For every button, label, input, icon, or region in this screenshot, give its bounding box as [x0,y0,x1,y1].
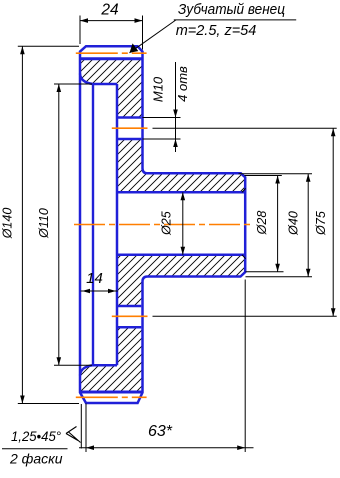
dim D140 line [21,46,23,403]
dim 63 line [79,447,254,449]
rim inner surface lower [93,364,117,367]
dim D40 extension lines [239,173,313,175]
svg-text:1,25•45°: 1,25•45° [11,429,62,444]
M10 callout line [175,62,177,152]
svg-text:Зубчатый венец: Зубчатый венец [178,1,285,18]
chamfer note leader [80,404,82,449]
dim D25 line [182,192,184,255]
dim 63 extension lines [85,404,87,453]
svg-text:Ø28: Ø28 [255,211,269,236]
svg-text:Ø75: Ø75 [314,211,328,236]
lower hole M10 bottom edge [117,326,141,329]
leader gear rim note [130,20,177,53]
rim inner fillet upper [80,74,93,85]
upper hole axis [112,127,148,129]
root line lower [80,391,143,394]
dim D40 line [307,174,309,277]
root line upper [80,57,143,60]
dim 24 extension lines [79,16,81,45]
hatched section: hub lower wall and web above lower hole [117,255,245,306]
rim inner surface upper [93,83,117,86]
svg-text:m=2.5, z=54: m=2.5, z=54 [176,23,257,39]
bore right chamfer upper [242,188,246,192]
dim D75 line [332,128,334,316]
dim D28 extension lines [245,175,282,177]
lower hole axis [112,315,148,317]
upper hole M10 bottom edge [117,138,141,141]
hatched section: upper rim and web [80,59,143,118]
part outline silhouette [80,46,245,403]
rim inner fillet lower [80,365,93,375]
main axis center line [74,224,251,226]
hatched section: web below upper hole and hub upper wall [117,139,245,192]
svg-text:Ø40: Ø40 [287,211,301,236]
svg-text:63*: 63* [148,423,173,440]
dim D110 line [58,84,60,365]
chamfer note underline [2,448,68,450]
upper hole M10 top edge [117,116,141,119]
dim D110 extension lines [54,83,92,85]
web left face V3 [116,84,119,365]
dim D28 line [277,176,279,272]
bore bottom edge [117,254,245,257]
dim 24 line [80,20,143,22]
bore right chamfer lower [242,255,246,259]
svg-text:24: 24 [100,2,119,19]
lower hole M10 top edge [117,305,141,308]
svg-text:2 фаски: 2 фаски [9,451,63,467]
svg-text:Ø110: Ø110 [37,208,51,239]
hatched section: lower web and rim [80,327,143,392]
svg-text:14: 14 [86,270,103,287]
pitch line upper [76,52,147,54]
svg-text:4 отв: 4 отв [175,66,190,102]
svg-text:Ø25: Ø25 [160,211,174,236]
dim D140 extension lines [18,45,79,47]
rim inner edge line V2 [92,84,94,365]
pitch line lower [76,396,147,398]
dim 14 line [81,290,118,292]
svg-text:Ø140: Ø140 [1,208,15,240]
svg-text:М10: М10 [151,76,166,102]
bore top edge [117,191,245,194]
dim D75 extension lines [153,127,337,129]
